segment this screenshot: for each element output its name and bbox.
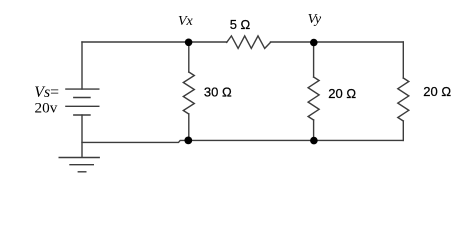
svg-text:30 Ω: 30 Ω: [204, 85, 232, 100]
svg-text:Vs=: Vs=: [34, 84, 59, 101]
wire top rail right: [271, 41, 404, 43]
svg-text:Vx: Vx: [178, 14, 194, 29]
wire 30 Ohm to bottom: [188, 114, 190, 140]
resistor 30 Ohm: [183, 72, 194, 114]
svg-text:20 Ω: 20 Ω: [423, 84, 451, 99]
svg-text:20 Ω: 20 Ω: [328, 86, 356, 101]
wire Vx down: [188, 42, 190, 72]
svg-text:20v: 20v: [35, 99, 58, 116]
wire left vertical (bottom): [81, 115, 83, 157]
wire right vertical (bottom): [402, 121, 404, 140]
svg-text:5 Ω: 5 Ω: [230, 17, 251, 32]
battery Vs: [66, 89, 99, 115]
resistor 20 Ohm right: [398, 78, 409, 121]
wire top rail left: [82, 41, 227, 43]
junction dot bottom right: [310, 137, 318, 145]
resistor R 5 Ohm: [227, 36, 271, 49]
wire Vy down: [313, 42, 315, 77]
junction dot bottom left: [184, 137, 192, 145]
wire 20 Ohm middle to bottom: [313, 120, 315, 140]
wire left vertical (top): [81, 42, 83, 89]
node Vx dot: [185, 39, 193, 47]
wire bottom rail: [82, 140, 403, 142]
ground: [59, 158, 99, 172]
wire right vertical (top): [402, 42, 404, 78]
resistor 20 Ohm middle: [308, 77, 319, 120]
node Vy dot: [310, 39, 318, 47]
svg-text:Vy: Vy: [308, 12, 322, 27]
